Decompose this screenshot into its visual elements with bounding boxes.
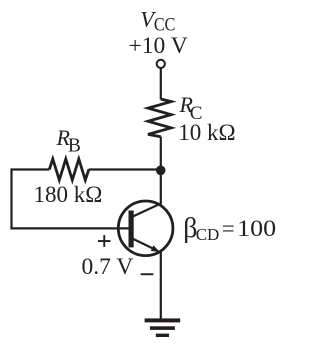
svg-text:=: = xyxy=(222,216,235,241)
svg-text:10 kΩ: 10 kΩ xyxy=(178,120,235,145)
svg-text:CD: CD xyxy=(196,225,220,244)
svg-text:180 kΩ: 180 kΩ xyxy=(34,182,103,207)
svg-text:0.7 V: 0.7 V xyxy=(82,254,134,280)
svg-text:100: 100 xyxy=(237,216,276,241)
svg-text:B: B xyxy=(68,136,81,157)
svg-text:+10 V: +10 V xyxy=(129,33,188,59)
